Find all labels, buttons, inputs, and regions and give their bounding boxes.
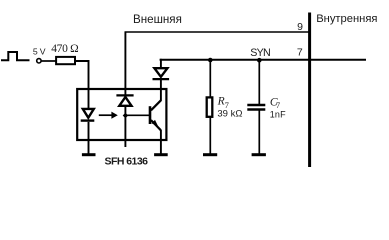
svg-text:1nF: 1nF bbox=[270, 109, 286, 119]
diode D1 cathode bar bbox=[153, 78, 170, 80]
wire terminal to resistor bbox=[41, 60, 56, 62]
transistor Q1 base bar bbox=[149, 106, 152, 124]
svg-text:SFH 6136: SFH 6136 bbox=[105, 156, 149, 168]
pin 9 rail bbox=[125, 31, 310, 33]
svg-text:470 Ω: 470 Ω bbox=[51, 43, 78, 55]
wire base node to transistor base bbox=[125, 114, 149, 116]
photodiode cathode bar bbox=[116, 94, 133, 96]
svg-text:Внутренняя: Внутренняя bbox=[316, 13, 377, 25]
pulse input symbol bbox=[1, 52, 30, 60]
junction dot base node bbox=[123, 113, 128, 119]
svg-text:SYN: SYN bbox=[250, 47, 270, 59]
LED cathode bar bbox=[81, 119, 95, 121]
ground bar below emitter bbox=[154, 153, 168, 156]
wire C7 to ground bbox=[258, 110, 260, 155]
svg-text:R: R bbox=[217, 96, 225, 108]
wire SYN rail to R7 bbox=[209, 60, 211, 97]
ground bar below C7 bbox=[252, 153, 266, 156]
SYN rail (pin 7) bbox=[160, 59, 366, 61]
junction dot R7 node bbox=[208, 58, 213, 63]
svg-text:5 V: 5 V bbox=[33, 47, 46, 57]
wire base node down through box to stub bbox=[124, 115, 126, 147]
partition bold line bbox=[308, 13, 311, 168]
wire R7 to ground bbox=[209, 117, 211, 154]
svg-text:7: 7 bbox=[297, 46, 303, 58]
input terminal circle bbox=[37, 59, 41, 63]
wire resistor to LED branch bbox=[76, 61, 89, 108]
junction dot C7 node bbox=[257, 58, 262, 63]
capacitor C7 top plate bbox=[247, 104, 265, 106]
wire diode anode to SYN rail bbox=[160, 59, 162, 68]
transistor emitter lead with arrow bbox=[151, 120, 161, 130]
ground bar below LED bbox=[82, 153, 96, 156]
diode D1 triangle (pointing down) bbox=[154, 68, 167, 77]
photodiode triangle (pointing up) bbox=[119, 97, 131, 106]
svg-text:9: 9 bbox=[297, 21, 303, 33]
svg-text:39 kΩ: 39 kΩ bbox=[217, 109, 242, 120]
wire SYN rail to C7 bbox=[258, 60, 260, 105]
transistor collector lead bbox=[151, 100, 161, 110]
resistor R7 body bbox=[207, 97, 213, 116]
ground bar below R7 bbox=[203, 153, 217, 156]
wire photodiode anode to base node bbox=[124, 106, 126, 115]
light arrow from LED to photodiode bbox=[99, 112, 118, 119]
wire collector up to diode bbox=[160, 80, 162, 101]
wire pin9 rail down to photodiode cathode bbox=[124, 32, 126, 95]
svg-text:Внешняя: Внешняя bbox=[133, 13, 182, 26]
optocoupler U1 box bbox=[77, 89, 166, 140]
capacitor C7 bottom plate bbox=[247, 108, 265, 110]
wire LED cathode to ground bbox=[88, 122, 90, 154]
wire emitter to ground bbox=[160, 130, 162, 154]
resistor 470 ohm body bbox=[56, 57, 75, 64]
LED anode triangle (inside optocoupler) bbox=[83, 109, 94, 118]
